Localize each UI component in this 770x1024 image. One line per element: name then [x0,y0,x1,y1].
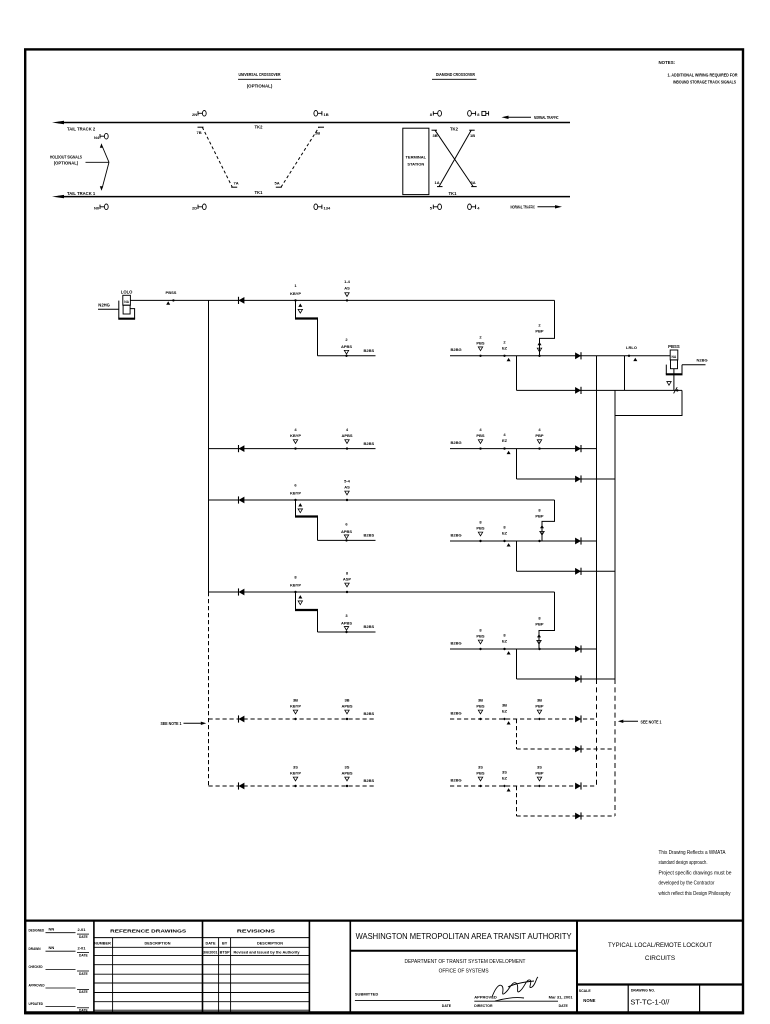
svg-text:2-01: 2-01 [78,946,87,951]
svg-text:PBS: PBS [476,526,485,531]
svg-text:UPDATED: UPDATED [29,1001,44,1006]
reference drawings table [94,929,310,1013]
contact 3B APBS [341,698,352,721]
wire left rung 3S [209,785,376,787]
contact 4 EZ [502,432,511,454]
diode rung1 [239,297,245,304]
signal 8 with bumper [468,111,489,117]
callout SEE NOTE 1 right [618,719,662,724]
svg-text:This Drawing Reflects a WMATA: This Drawing Reflects a WMATA [659,850,726,856]
svg-text:STATION: STATION [407,162,424,167]
svg-text:TK2: TK2 [255,124,264,129]
contact 6 KBYP [290,483,303,513]
svg-text:PBS: PBS [476,771,485,776]
svg-text:EZ: EZ [502,709,508,714]
svg-text:B2BS: B2BS [364,441,375,446]
svg-text:(OPTIONAL): (OPTIONAL) [54,161,79,166]
wire PBSS coil drop [667,369,679,394]
wire branch4 APBS to B2BS [318,631,376,633]
svg-text:EZ: EZ [502,531,508,536]
diode sub rung 3S [575,812,581,819]
svg-text:3B: 3B [537,698,542,703]
svg-text:EZ: EZ [502,438,508,443]
diode sub rung 2 [575,387,581,394]
svg-text:3B: 3B [293,698,298,703]
svg-text:B2BS: B2BS [364,624,375,629]
svg-text:134: 134 [324,205,331,210]
svg-text:EZ: EZ [502,776,508,781]
wire left rung 8 [209,591,555,593]
wire right rung 4 [450,448,597,450]
wire right rung 3S [450,785,597,787]
contact 5-4 AS [344,479,351,502]
revisions table [203,929,300,1013]
diode sub rung 3B [575,745,581,752]
svg-text:DRAWN: DRAWN [29,946,41,951]
svg-text:5A: 5A [275,181,280,186]
svg-text:KBYP: KBYP [290,433,301,438]
callout SEE NOTE 1 left [161,721,207,726]
title block vertical dividers [94,921,577,1013]
contact 3B PBP [535,698,544,721]
svg-text:3S: 3S [537,765,542,770]
wire sub rung 3S [517,815,616,817]
svg-text:LOLO: LOLO [121,290,133,295]
diode right rung 3S [575,782,581,789]
svg-text:3B: 3B [478,698,483,703]
label 8 PBP [535,508,544,543]
contact 1-4 AS [344,279,351,302]
svg-text:AS: AS [344,485,350,490]
svg-text:1B: 1B [324,112,329,117]
signal 134 [314,204,331,210]
svg-text:APPROVED: APPROVED [29,983,45,988]
svg-text:DIRECTOR: DIRECTOR [474,1004,493,1008]
relay LOLO [98,290,135,319]
svg-text:B2BS: B2BS [364,778,375,783]
svg-text:CHECKED: CHECKED [29,964,43,969]
contact 8 PBS [476,628,485,651]
svg-text:DRAWING NO.: DRAWING NO. [631,988,655,992]
svg-text:KBYP: KBYP [290,291,301,296]
svg-text:SCALE: SCALE [579,989,592,993]
label 8 PBP [535,616,544,651]
wire wrap rung8 to PBP [537,592,555,649]
diode sub rung 8 [575,675,581,682]
svg-text:NN: NN [49,945,55,950]
diode left rung 8 [239,588,245,595]
wire junction drop rung 2 [516,356,518,391]
wire sub rung 8 [517,678,616,680]
svg-text:3S: 3S [293,765,298,770]
svg-text:1A: 1A [435,180,440,185]
svg-text:PBS: PBS [476,433,485,438]
svg-text:APPROVED: APPROVED [474,994,497,999]
drawing philosophy note [659,850,732,897]
svg-text:DATE: DATE [79,972,89,976]
svg-text:B2BS: B2BS [364,711,375,716]
svg-text:3B: 3B [502,703,507,708]
contact 4 KBYP [290,427,301,450]
wire junction drop rung 4 [516,449,518,479]
svg-text:5-4: 5-4 [344,479,351,484]
svg-text:NA: NA [672,355,677,359]
title DIAMOND CROSSOVER [432,72,477,79]
svg-text:EZ: EZ [502,345,508,350]
svg-text:CIRCUITS: CIRCUITS [645,955,675,962]
diode sub rung 4 [575,475,581,482]
signal 8 [430,111,442,117]
wire sub rung 4 [517,478,616,480]
svg-text:B2BG: B2BG [451,640,462,645]
svg-text:NUMBER: NUMBER [94,941,111,945]
bus left vertical [208,300,210,786]
contact 8 ASP [343,571,352,594]
svg-text:NN: NN [49,927,55,932]
wire left rung 6 [209,499,555,501]
svg-text:N4: N4 [94,135,100,140]
wire branch4 KBYP step down [295,592,318,632]
wire right rung 8 [450,648,597,650]
svg-text:HOLDOUT SIGNALS: HOLDOUT SIGNALS [50,154,82,159]
signal 2D [192,204,206,210]
wire junction drop rung 8 [516,649,518,679]
wire rung1 left [130,299,554,301]
svg-text:NORMAL TRAFFIC: NORMAL TRAFFIC [534,115,559,120]
svg-text:DATE: DATE [79,953,89,957]
svg-text:APBS: APBS [341,620,352,625]
svg-text:DATE: DATE [79,935,89,939]
svg-text:which reflect this Design Phil: which reflect this Design Philosophy [659,891,731,897]
diode right rung 8 [575,537,581,544]
wire wrap rung6 to 8 PBP [540,500,555,541]
wire sub rung 8 [517,570,616,572]
svg-text:BY: BY [222,941,228,945]
diamond crossover leg 1A-1B [437,130,475,186]
svg-text:ASP: ASP [343,577,352,582]
signature scribble [492,977,538,1001]
track line TAIL TRACK 1 [52,195,570,198]
svg-text:NORMAL TRAFFIC: NORMAL TRAFFIC [511,205,536,210]
contact PBSS rung1 [166,290,177,305]
svg-text:3B: 3B [344,698,349,703]
contact 4 PBS [476,427,485,450]
svg-text:Project specific drawings must: Project specific drawings must be [659,870,732,876]
svg-text:PBS: PBS [476,634,485,639]
contact 3B PBS [476,698,485,721]
svg-text:3S: 3S [478,765,483,770]
wire sub rung 2 [517,389,683,391]
note 1 text [668,73,738,85]
svg-text:SEE NOTE 1: SEE NOTE 1 [641,719,663,724]
svg-text:N2HG: N2HG [98,303,110,308]
svg-text:7B: 7B [197,130,202,135]
svg-text:ST-TC-1-0//: ST-TC-1-0// [630,998,670,1007]
svg-text:KBYP: KBYP [290,704,301,709]
svg-text:B2BS: B2BS [364,533,375,538]
svg-text:DATE: DATE [205,941,216,945]
svg-text:Revised and Issued by the Auth: Revised and Issued by the Authority [234,951,301,955]
svg-text:AS: AS [344,286,350,291]
svg-text:APBS: APBS [341,771,352,776]
svg-text:DATE: DATE [79,990,89,994]
svg-text:DATE: DATE [79,1009,89,1013]
diode left rung 3B [239,715,245,722]
svg-text:7A: 7A [234,181,239,186]
diode right rung 2 [575,352,581,359]
svg-text:(OPTIONAL): (OPTIONAL) [247,84,273,89]
wire sub rung 3B [517,748,616,750]
label NORMAL TRAFFIC upper with arrow [502,115,559,120]
project title cell [577,942,743,1013]
svg-text:NONE: NONE [583,998,595,1003]
svg-text:PBS: PBS [476,340,485,345]
svg-text:PBP: PBP [535,514,544,519]
svg-text:DATE: DATE [559,1004,569,1008]
svg-text:B2BS: B2BS [364,348,375,353]
svg-text:standard design approach.: standard design approach. [659,860,708,866]
wire branch3 APBS to B2BS [318,539,376,541]
diode left rung 3S [239,782,245,789]
svg-text:TYPICAL LOCAL/REMOTE LOCKOUT: TYPICAL LOCAL/REMOTE LOCKOUT [608,942,712,949]
svg-text:PBP: PBP [535,433,544,438]
svg-text:2-01: 2-01 [78,927,87,932]
wire branch1 APBS to B2BS [318,355,376,357]
svg-text:Mar 31, 2001: Mar 31, 2001 [549,995,573,999]
svg-text:DATE: DATE [442,1004,452,1008]
wire junction drop rung 8 [516,541,518,571]
contact 3S KBYP [290,765,301,788]
svg-text:SEE NOTE 1: SEE NOTE 1 [161,721,183,726]
svg-text:B2BG: B2BG [451,347,462,352]
svg-text:EZ: EZ [502,639,508,644]
svg-text:DEPARTMENT OF TRANSIT SYSTE: DEPARTMENT OF TRANSIT SYSTEM DEVELOPMENT [405,959,527,965]
wire right rung 2 [450,355,670,357]
diode right rung 8 [575,645,581,652]
svg-text:TAIL TRACK 1: TAIL TRACK 1 [67,191,96,196]
signal 1B [314,111,329,117]
relay PBSS [666,344,683,374]
svg-text:TK2: TK2 [450,127,459,132]
wire left rung 4 [209,448,376,450]
svg-text:TK1: TK1 [255,190,264,195]
contact 3 APBS [341,613,352,633]
signal 5 [430,204,442,210]
contact LRLO [626,345,637,361]
wire branch3 KBYP step down [295,500,318,540]
wire vertical connector pair1 [624,356,626,391]
switch 7B-7A crossover leg [198,127,238,187]
wire left rung 3B [209,718,376,720]
svg-text:DIAMOND CROSSOVER: DIAMOND CROSSOVER [436,72,476,77]
svg-text:APBS: APBS [341,433,352,438]
title block outer band [25,921,743,1013]
svg-text:DESCRIPTION: DESCRIPTION [145,941,171,945]
svg-text:DESIGNED: DESIGNED [29,927,45,932]
diode left rung 4 [239,445,245,452]
wire right rung 8 [450,540,597,542]
svg-text:3/6/2001: 3/6/2001 [203,951,218,955]
svg-text:B2BG: B2BG [451,777,462,782]
svg-text:SUBMITTED: SUBMITTED [355,992,378,997]
svg-text:DESCRIPTION: DESCRIPTION [257,941,283,945]
svg-text:3S: 3S [345,765,350,770]
contact 3B EZ [502,703,511,725]
svg-text:UNIVERSAL CROSSOVER: UNIVERSAL CROSSOVER [239,72,282,77]
switch 5A-5B crossover leg [276,127,324,187]
svg-text:NOTES:: NOTES: [659,60,676,65]
wire wrap rung1 to 2 PBP [537,300,554,355]
wire junction drop rung 3B [516,719,518,749]
signal N0 [94,204,108,210]
submitted approved row [355,992,573,1008]
svg-text:BTSP: BTSP [220,951,231,955]
svg-text:B2BG: B2BG [451,532,462,537]
contact 2 EZ [502,339,511,361]
svg-text:developed by the Contractor: developed by the Contractor [659,881,715,887]
svg-text:TERMINAL: TERMINAL [405,155,426,160]
svg-text:1. ADDITIONAL WIRING REQUIRED: 1. ADDITIONAL WIRING REQUIRED FOR [668,73,738,78]
bus2 vertical [614,390,616,816]
signature rows left column [29,927,90,1013]
diode left rung 6 [239,496,245,503]
svg-text:3A: 3A [471,180,476,185]
signal 4 [468,204,481,210]
contact 4 APBS [341,427,352,450]
contact 2 APBS [341,337,352,357]
svg-text:LRLO: LRLO [626,345,637,350]
svg-text:TAIL TRACK 2: TAIL TRACK 2 [67,126,96,131]
agency title [350,931,577,974]
diode right rung 4 [575,445,581,452]
contact 2 PBS [476,334,485,357]
contact 3S PBS [476,765,485,788]
svg-text:KBYP: KBYP [290,491,301,496]
contact 3S PBP [535,765,544,788]
svg-text:TK1: TK1 [449,191,458,196]
svg-text:2N: 2N [192,112,197,117]
contact 1 KBYP [290,283,303,313]
signal 2N [192,111,206,117]
svg-text:1-4: 1-4 [344,279,351,284]
svg-text:WASHINGTON METROPOLITAN AREA: WASHINGTON METROPOLITAN AREA TRANSIT AUT… [356,931,572,941]
svg-text:INBOUND STORAGE TRACK SIGNALS: INBOUND STORAGE TRACK SIGNALS [673,80,736,85]
svg-text:PBP: PBP [535,704,544,709]
contact 3B KBYP [290,698,301,721]
svg-text:APBS: APBS [341,529,352,534]
svg-text:5B: 5B [315,131,320,136]
contact 8 EZ [502,633,511,655]
label 2 PBP [535,322,544,357]
contact 3S EZ [502,770,511,792]
wire junction drop rung 3S [516,786,518,816]
contact 8 KBYP [290,575,303,605]
title UNIVERSAL CROSSOVER [238,72,281,88]
svg-text:PBSS: PBSS [668,344,680,349]
diode sub rung 8 [575,568,581,575]
svg-text:3S: 3S [502,770,507,775]
svg-text:REFERENCE DRAWINGS: REFERENCE DRAWINGS [110,929,187,935]
svg-text:APBS: APBS [341,704,352,709]
contact 3S APBS [341,765,352,788]
diamond crossover leg 3B-3A [432,130,477,186]
svg-text:3B: 3B [433,133,438,138]
svg-text:B2BG: B2BG [451,710,462,715]
contact 6 APBS [341,522,352,542]
svg-text:2D: 2D [192,205,197,210]
signal N4 [94,133,108,139]
label NORMAL TRAFFIC lower with arrow [511,205,563,210]
svg-text:OFFICE OF SYSTEMS: OFFICE OF SYSTEMS [439,968,489,974]
svg-text:PBSS: PBSS [166,290,177,295]
svg-text:PBP: PBP [535,622,544,627]
wire branch1 KBYP down [295,300,318,355]
svg-text:PBS: PBS [476,704,485,709]
wire right rung 3B [450,718,597,720]
svg-text:APBS: APBS [341,344,352,349]
svg-text:KBYP: KBYP [290,583,301,588]
wire pair1 sub return loop [615,390,682,415]
contact 8 PBS [476,520,485,543]
svg-text:B2BG: B2BG [451,440,462,445]
holdout signals callout [50,143,109,190]
contact 8 EZ [502,525,511,547]
contact 4 PBP [535,427,544,450]
wire N2BG output [682,364,706,366]
diode right rung 3B [575,715,581,722]
bus1 vertical [596,356,598,786]
svg-text:1B: 1B [470,133,475,138]
svg-text:KBYP: KBYP [290,771,301,776]
svg-text:N0: N0 [94,205,100,210]
svg-text:REVISIONS: REVISIONS [237,929,276,935]
track line TAIL TRACK 2 [52,121,570,124]
svg-text:NA: NA [124,300,129,304]
terminal station box [403,128,429,194]
svg-text:PBP: PBP [535,328,544,333]
svg-text:PBP: PBP [535,771,544,776]
svg-text:N2BG: N2BG [697,357,708,362]
